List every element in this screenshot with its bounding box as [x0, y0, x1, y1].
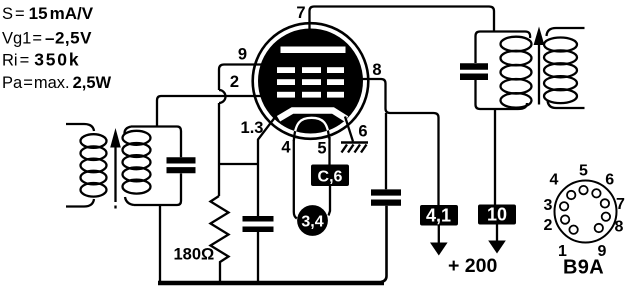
- wire pin 8 anode to 4,1 box and C3: [358, 79, 439, 205]
- tube V1 grid g2 dashed row: [277, 79, 344, 85]
- wire pin 9 to grid junction: [219, 65, 262, 91]
- tube V1 heater arc: [294, 118, 329, 141]
- svg-text:7: 7: [616, 196, 625, 213]
- svg-text:+ 200: + 200: [448, 255, 497, 277]
- wire pin 5 heater lower: [329, 186, 331, 216]
- chassis ground symbol: [341, 143, 368, 153]
- wire C1 bottom to T1 bottom lead: [134, 173, 181, 205]
- socket pin 2: [561, 215, 569, 223]
- svg-text:9: 9: [238, 46, 247, 64]
- wire T1 secondary top lead: [131, 127, 181, 158]
- svg-text:4,1: 4,1: [426, 206, 451, 226]
- tube V1 cathode: [279, 111, 347, 120]
- svg-text:2: 2: [544, 217, 553, 234]
- wire rail corner up to C3: [381, 206, 387, 282]
- wire pin 6 to chassis ground: [345, 117, 353, 142]
- wire C3 top to pin8 wire: [385, 113, 387, 189]
- svg-text:6: 6: [358, 123, 367, 141]
- tube V1 anode bar: [281, 47, 346, 54]
- tube V1 grid g1 dashed row: [277, 92, 344, 98]
- input transformer T1 core arrow: [114, 147, 116, 209]
- svg-text:8: 8: [372, 61, 381, 79]
- wire down to resistor: [218, 103, 220, 196]
- tube V1 envelope: [253, 23, 369, 139]
- svg-text:3: 3: [544, 197, 553, 214]
- socket pin 7: [601, 199, 609, 207]
- svg-text:5: 5: [579, 163, 588, 180]
- svg-text:4: 4: [550, 172, 559, 189]
- socket pin 3: [560, 202, 568, 210]
- input transformer T1 secondary coil: [123, 127, 151, 206]
- svg-text:180Ω: 180Ω: [174, 246, 215, 264]
- svg-text:10: 10: [487, 205, 507, 225]
- arrow below 10: [496, 225, 498, 242]
- socket pin 5: [579, 186, 587, 194]
- svg-text:4: 4: [281, 139, 291, 157]
- capacitor C4 across T2 primary: [460, 67, 488, 77]
- tube V1 heater arc outside feet: [294, 118, 329, 141]
- svg-text:C,6: C,6: [318, 169, 343, 186]
- wire pin7 to output transformer top: [310, 7, 495, 33]
- wire crossover bump over pin2 wire: [219, 90, 226, 103]
- output transformer T2 secondary coil: [544, 28, 585, 108]
- capacitor C2 cathode bypass: [243, 219, 274, 229]
- output transformer T2 left wire top: [476, 32, 495, 64]
- capacitor C3 anode decoupling: [371, 193, 401, 203]
- socket pin 4: [567, 191, 575, 199]
- socket pin 6: [592, 189, 600, 197]
- wire link resistor top to cathode line: [219, 163, 258, 165]
- wire pin 1.3 cathode down: [258, 116, 276, 216]
- heater label box C,6: [311, 165, 349, 187]
- output transformer T2 top edge: [494, 32, 530, 39]
- svg-text:6: 6: [605, 172, 614, 189]
- heater voltage circle 3,4: [297, 205, 328, 236]
- wire pin 2 to input transformer: [157, 96, 262, 127]
- svg-text:Vg1=–2,5V: Vg1=–2,5V: [2, 29, 92, 48]
- svg-text:8: 8: [615, 218, 624, 235]
- svg-text:B9A: B9A: [563, 257, 604, 279]
- output transformer T2 primary coil: [501, 37, 532, 108]
- current box 4,1: [420, 205, 458, 226]
- output transformer T2 core arrow: [538, 44, 540, 105]
- svg-text:3,4: 3,4: [301, 214, 323, 231]
- wire T1 bottom junction to ground rail: [159, 205, 161, 281]
- svg-text:2: 2: [230, 73, 239, 91]
- wire pin 5 heater upper: [328, 137, 330, 165]
- ground rail: [158, 281, 384, 286]
- wire C2 bottom to rail: [257, 232, 259, 281]
- B9A socket circle: [555, 181, 617, 243]
- svg-text:Pa=max.2,5W: Pa=max.2,5W: [2, 74, 112, 92]
- svg-text:7: 7: [296, 4, 305, 22]
- arrow below 4,1: [438, 226, 440, 245]
- output transformer T2 bottom edge: [494, 103, 527, 109]
- socket pin 1: [569, 226, 577, 234]
- current box 10: [478, 205, 516, 225]
- socket pin 9: [595, 224, 603, 232]
- wire T2 primary bottom to 10 box: [494, 109, 496, 205]
- svg-text:1.3: 1.3: [241, 119, 264, 137]
- socket pin 8: [602, 213, 610, 221]
- tube V1 grid g3 dashed row: [277, 67, 344, 73]
- capacitor C1 across T1 secondary: [167, 160, 196, 170]
- resistor R1 180 ohm: [211, 196, 229, 281]
- output transformer T2 left wire bottom: [476, 80, 495, 109]
- svg-text:Ri=350k: Ri=350k: [2, 50, 80, 70]
- wire pin 4 heater: [294, 140, 297, 219]
- input transformer T1 primary coil: [66, 124, 107, 207]
- svg-text:5: 5: [317, 140, 326, 158]
